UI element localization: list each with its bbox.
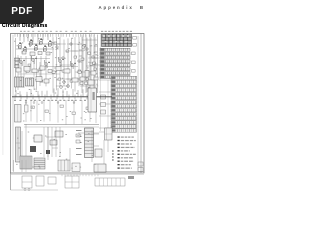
regulator blocks VR1 xyxy=(46,131,63,154)
ladder diodes D2-D4 (left edge) xyxy=(15,38,43,92)
value labels lower (specks) xyxy=(16,132,96,169)
bridge rectifier D1 xyxy=(30,146,36,152)
lower double border xyxy=(11,174,145,176)
note marks left of legend xyxy=(112,150,113,161)
right inner frame line xyxy=(101,34,139,170)
power bus (horizontal) xyxy=(12,95,112,100)
feed wires left of connector column xyxy=(79,35,98,94)
vertical wires centre-low xyxy=(44,127,60,157)
reference designator labels (specks) xyxy=(14,37,98,94)
label row below bus (specks) xyxy=(14,100,96,101)
resistor network RN1 (striped rows) xyxy=(111,76,137,132)
bus wires to resistor network xyxy=(99,80,113,128)
driver IC U9 xyxy=(99,128,112,168)
wiring mid-section xyxy=(23,71,99,128)
wire tangle (top-left cluster) xyxy=(16,34,60,90)
tick row below bottom border xyxy=(62,174,98,176)
net name labels above frame (specks) xyxy=(20,31,92,32)
component row y66-75 xyxy=(16,66,70,73)
interface gates U8 (left of network) xyxy=(101,95,106,114)
junction circles below bus xyxy=(25,102,91,104)
wire drops to bus xyxy=(16,88,94,96)
pin header ticks along top border xyxy=(15,34,94,37)
electrolytic capacitor C2 (tall bar) xyxy=(16,127,21,162)
corner boxes bottom-right xyxy=(100,162,144,172)
transistor clusters mid-band Q7-Q11 xyxy=(14,56,81,74)
hatched ICs above bus (U4-U7) xyxy=(15,77,99,89)
labels above connector table xyxy=(101,31,132,32)
page header text "Appendix B" xyxy=(0,5,145,10)
connector pin stubs xyxy=(132,37,137,73)
title block boxes below frame xyxy=(22,176,134,188)
PDF file-type badge xyxy=(0,0,44,24)
terminal circles below footer xyxy=(24,189,30,191)
small component boxes (upper-centre) xyxy=(54,42,97,82)
power supply block PS1 xyxy=(58,160,80,172)
schematic border frame xyxy=(11,34,145,191)
wires lower-left xyxy=(14,124,100,172)
scan artifact (left margin shading) xyxy=(2,60,5,155)
auxiliary boxes right-centre xyxy=(76,134,106,172)
heading "Circuit Diagrams" xyxy=(2,23,48,29)
transformer T1 (hatched) xyxy=(20,156,45,169)
capacitor bank C1 xyxy=(15,105,29,123)
main IC U10 (tall, hatched) xyxy=(76,128,99,158)
connector table J2 (thin striped rows) xyxy=(100,48,130,78)
legend list (component key) xyxy=(118,136,136,168)
transistors Q1-Q6 (circles) xyxy=(56,43,94,62)
connector table J1 xyxy=(102,34,132,47)
wire strands (upper-centre) xyxy=(53,37,100,93)
relay K1 xyxy=(34,135,42,142)
